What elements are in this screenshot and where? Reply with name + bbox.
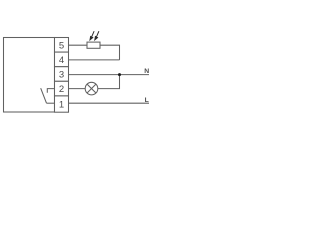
wire terminal 2 to lamp [69, 88, 86, 90]
lamp E1 cross [87, 84, 96, 93]
wire photoresistor to loop corner [100, 45, 120, 60]
terminal 5 [55, 38, 69, 53]
wire lamp to N junction [98, 75, 120, 89]
svg-text:N: N [144, 68, 149, 75]
photoresistor R1 (light sensor body) [87, 42, 100, 48]
light arrow 1 into photoresistor [90, 31, 94, 40]
svg-text:5: 5 [59, 41, 64, 52]
svg-text:4: 4 [59, 55, 64, 66]
terminal 2 [55, 81, 69, 96]
wire terminal 5 to photoresistor [69, 44, 88, 46]
switch S1 blade [41, 88, 47, 103]
lamp E1 circle [85, 82, 98, 95]
svg-text:1: 1 [59, 99, 64, 110]
terminal 3 [55, 67, 69, 82]
wire switch pivot to terminal 1 [47, 102, 55, 104]
wire terminal 3 to N line [69, 74, 150, 76]
svg-text:L: L [145, 97, 149, 104]
wire terminal 1 to L line [69, 102, 150, 104]
control unit U1 (twilight switch housing) [4, 38, 55, 113]
svg-text:2: 2 [59, 84, 64, 95]
node junction dot on N wire [118, 73, 121, 76]
switch S1 fixed contact [47, 89, 54, 93]
terminal 1 [55, 96, 69, 112]
svg-text:3: 3 [59, 70, 64, 81]
terminal 4 [55, 52, 69, 67]
light arrow 2 into photoresistor [95, 31, 99, 40]
wire loop back to terminal 4 [69, 59, 120, 61]
